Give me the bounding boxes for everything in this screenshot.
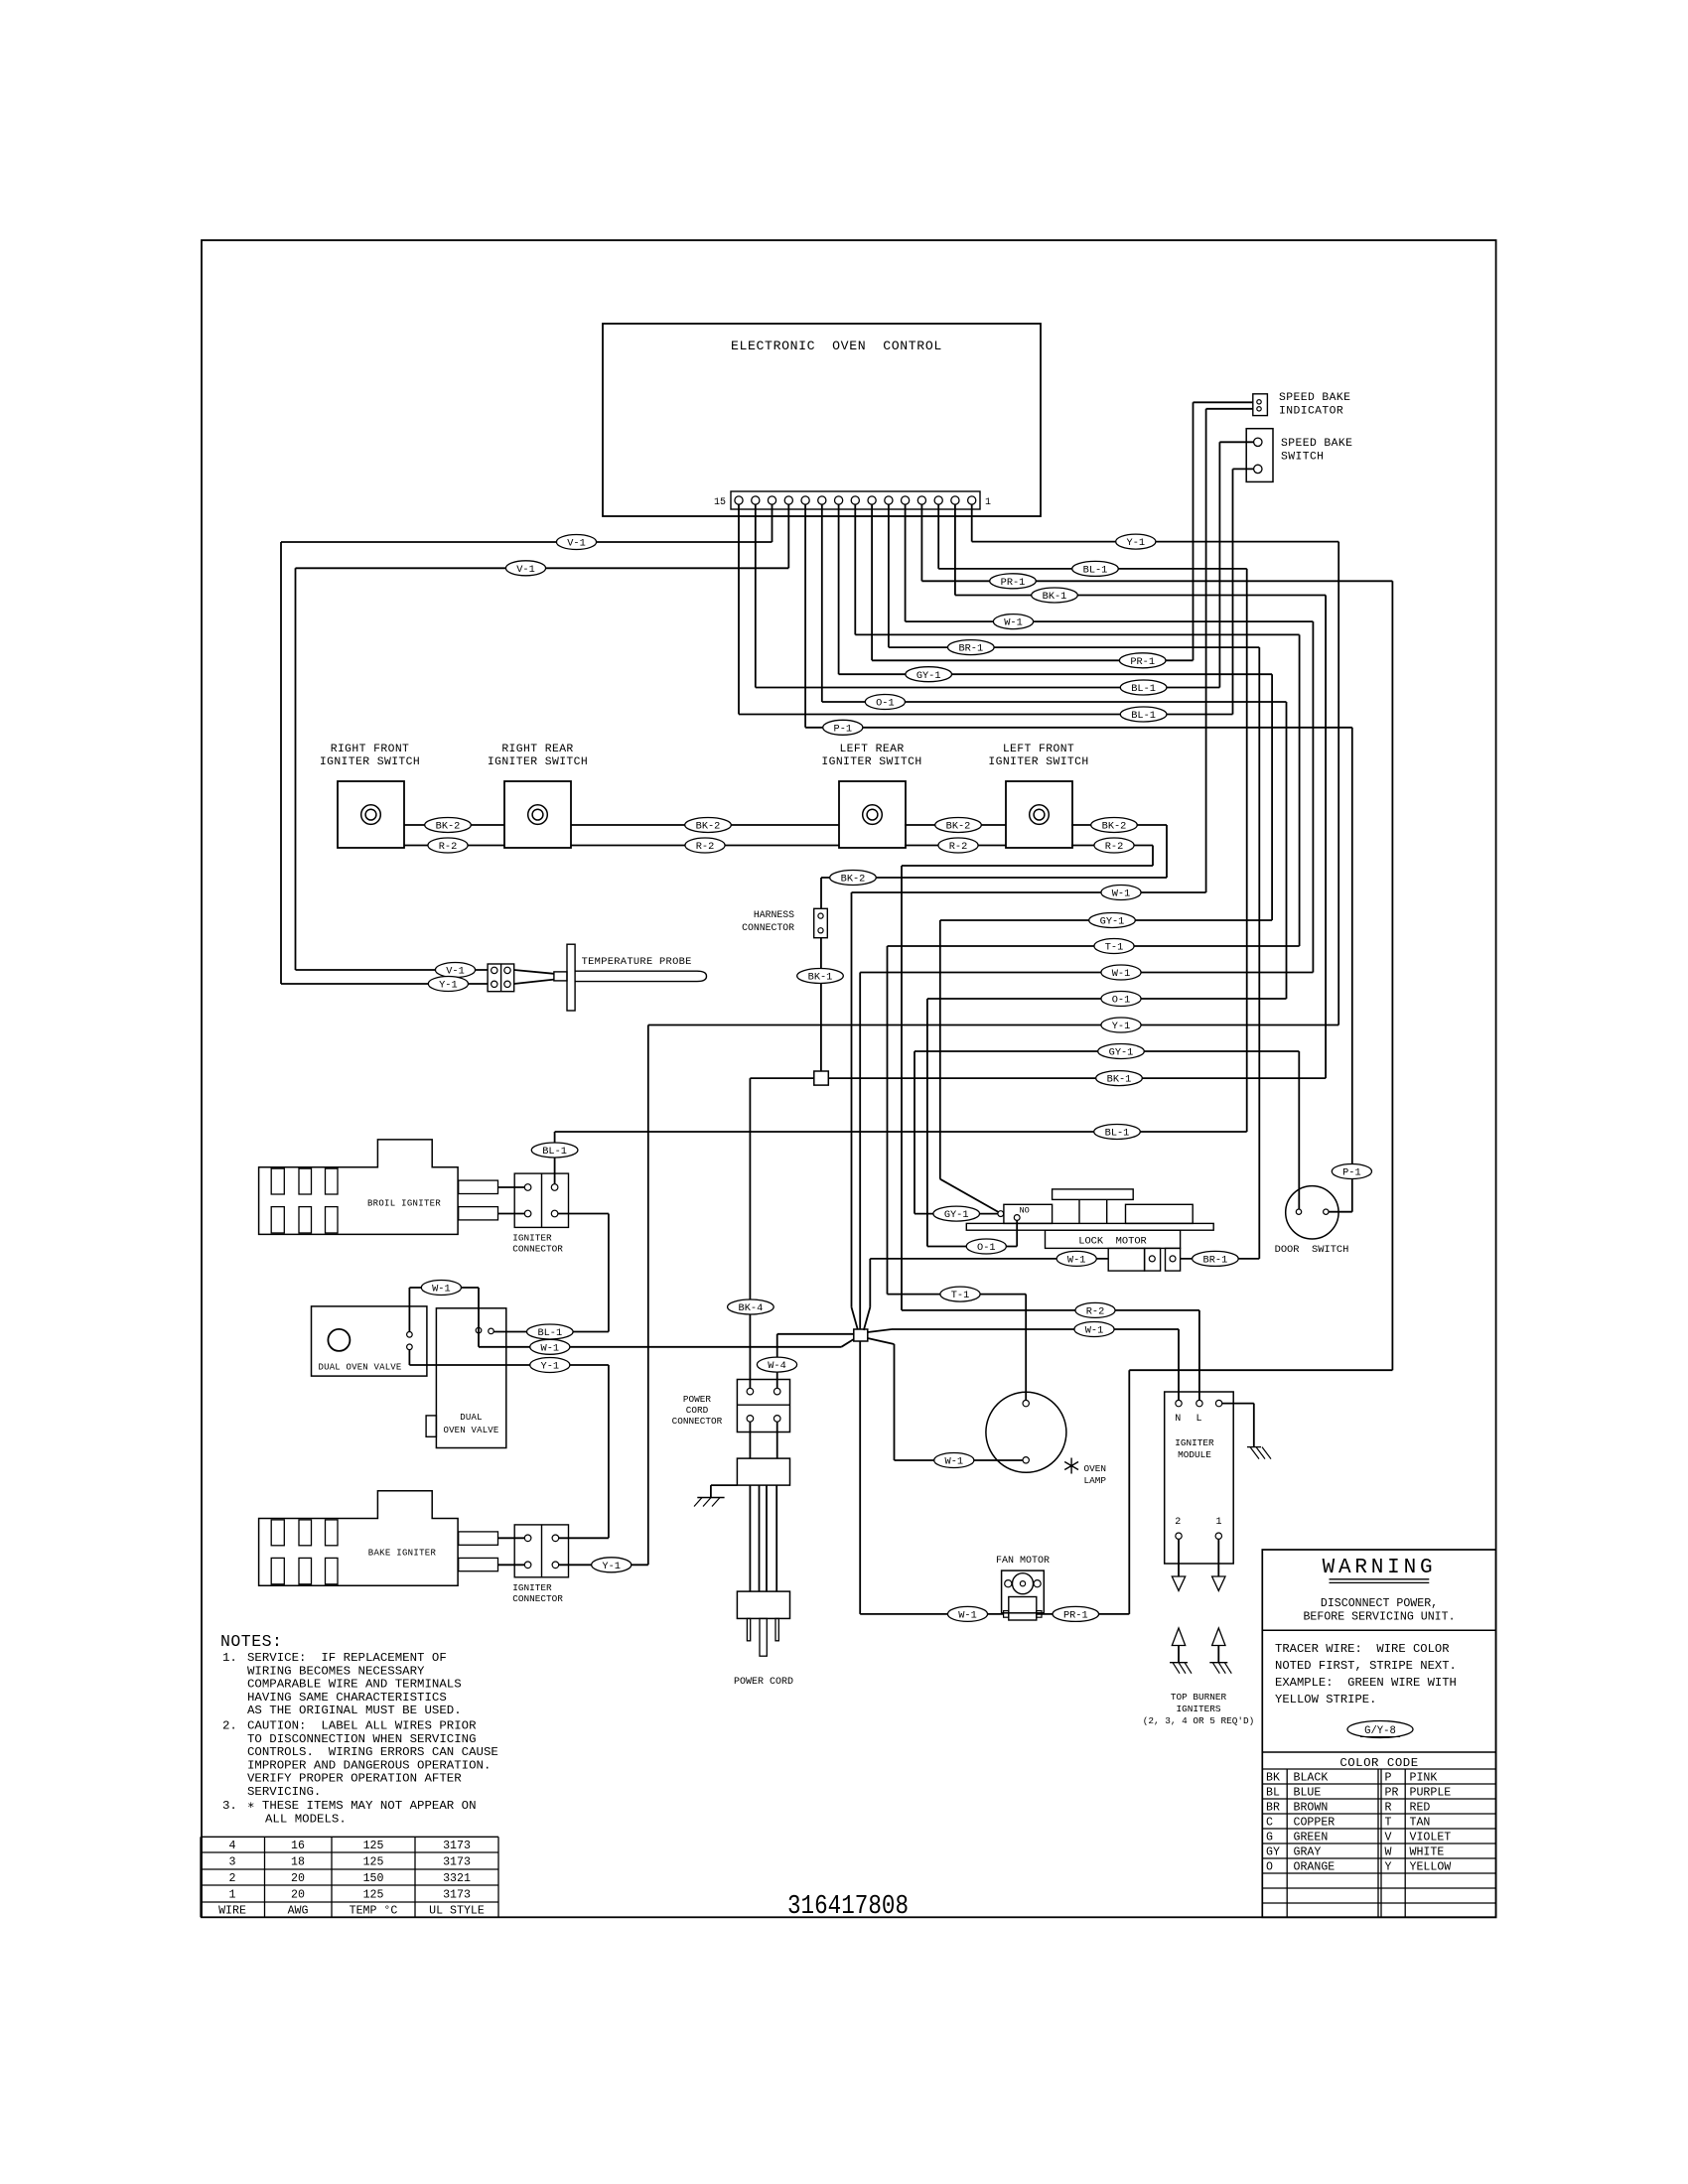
wire BK-4 from node (750, 1077, 813, 1079)
wire vertical GY-1 (1271, 674, 1273, 920)
oval label W-1 mid (1101, 886, 1141, 900)
svg-text:R: R (1385, 1801, 1392, 1814)
wire BL-1 valve row (493, 1331, 609, 1333)
wire vertical Y-1 (1337, 542, 1339, 1025)
svg-text:V-1: V-1 (516, 564, 535, 576)
wire T-1 row upper (855, 633, 1299, 635)
wire indicator pin1 (1194, 401, 1253, 403)
svg-text:Y-1: Y-1 (602, 1561, 621, 1572)
svg-text:IMPROPER AND DANGEROUS OPERATI: IMPROPER AND DANGEROUS OPERATION. (247, 1758, 491, 1772)
oval label BK-2 c (935, 818, 982, 833)
wire W-1 drop to node (851, 892, 853, 1307)
svg-text:BL-1: BL-1 (1131, 710, 1156, 722)
power cord connector label (672, 1394, 723, 1427)
power cord strain relief upper (737, 1458, 789, 1485)
wire T-1 lamp row (888, 1294, 1027, 1296)
wire vertical W-1 (1312, 621, 1314, 972)
door switch S2 body (1286, 1186, 1338, 1239)
ground symbol burner b (1209, 1663, 1231, 1674)
igniter module pin G (1215, 1400, 1221, 1406)
power cord connector divider (737, 1404, 789, 1406)
svg-text:WHITE: WHITE (1410, 1845, 1445, 1858)
svg-text:O-1: O-1 (977, 1242, 996, 1254)
svg-text:HARNESS: HARNESS (754, 909, 794, 920)
fan motor M2 box (1002, 1570, 1045, 1613)
bake igniter connector label (512, 1582, 563, 1604)
wire W-1 drop 2 to node (859, 973, 861, 1614)
speed bake switch pins (1254, 438, 1262, 474)
oval label T-1 mid (1094, 939, 1134, 954)
wire Y-1 long drop (647, 1025, 649, 1566)
wire broil pin1 (498, 1186, 525, 1188)
warning text (1303, 1597, 1455, 1624)
oval label R-2 d (1094, 838, 1134, 853)
connector P1 pins 15..1 (735, 496, 976, 504)
warning title (1323, 1557, 1437, 1579)
igniter module pin labels N L (1175, 1414, 1201, 1425)
svg-text:BLACK: BLACK (1294, 1771, 1329, 1784)
oval label W-1 lamp (934, 1453, 974, 1468)
svg-text:VERIFY PROPER OPERATION AFTER: VERIFY PROPER OPERATION AFTER (247, 1772, 462, 1786)
wire R-2 crossover (902, 865, 1153, 867)
oven lamp pins (1023, 1400, 1029, 1463)
wire pin6 drop BR-1 (888, 504, 890, 647)
svg-text:BK-1: BK-1 (1043, 591, 1067, 603)
oval label BL-1 broil (531, 1143, 578, 1158)
wire table grid (201, 1837, 498, 1917)
svg-text:W-1: W-1 (1004, 617, 1023, 629)
svg-text:O-1: O-1 (876, 698, 895, 710)
note 2 (222, 1719, 498, 1800)
lock motor lower pin b (1149, 1256, 1155, 1262)
harness connector J1 box (814, 908, 828, 937)
fan motor pin tabs (1004, 1611, 1042, 1618)
power cord label (734, 1677, 793, 1688)
bake igniter connector divider (541, 1525, 543, 1577)
wire broil pin2 (498, 1213, 525, 1215)
wire W-1 valve loop top (409, 1287, 479, 1289)
wire W-1 to lock motor (870, 1258, 1108, 1260)
wire T-1 to lamp (1025, 1295, 1027, 1401)
svg-text:IGNITER SWITCH: IGNITER SWITCH (821, 756, 921, 768)
fan motor label (996, 1556, 1050, 1567)
oval label BL-1 (1072, 561, 1119, 576)
temperature probe connector box (488, 964, 514, 992)
svg-text:CONNECTOR: CONNECTOR (512, 1593, 563, 1604)
lock motor lower box b (1145, 1248, 1161, 1271)
Left Front igniter switch box (1006, 781, 1072, 848)
oval label GY-1 (906, 667, 952, 682)
wire BK-2 LR-LF (905, 824, 1006, 826)
wire BR-1 row (889, 646, 1259, 648)
fan motor ears (1005, 1580, 1041, 1587)
svg-text:DISCONNECT POWER,: DISCONNECT POWER, (1321, 1597, 1438, 1610)
svg-text:G: G (1266, 1831, 1273, 1843)
igniter module pin 2 (1176, 1533, 1182, 1539)
svg-text:IGNITER SWITCH: IGNITER SWITCH (488, 756, 588, 768)
oval label BL-1 mid (1094, 1125, 1141, 1140)
Right Rear igniter switch label (488, 744, 588, 768)
svg-text:3173: 3173 (443, 1889, 471, 1902)
wire PR-1 row 2 (872, 659, 1193, 661)
wire pin10 drop O-1 (821, 504, 823, 702)
svg-text:BL-1: BL-1 (537, 1327, 562, 1339)
oval label BK-1 (1032, 588, 1078, 603)
svg-text:PINK: PINK (1410, 1771, 1438, 1784)
oval label O-1 lock (966, 1239, 1006, 1254)
temperature probe connector divider (500, 964, 502, 992)
power cord 4 conductors (750, 1485, 776, 1591)
svg-text:R-2: R-2 (949, 841, 968, 853)
dual oven valve B pins (476, 1327, 493, 1333)
wire BK-2 drop (1166, 825, 1168, 878)
oval label Y-1 valve (530, 1358, 570, 1373)
wire pin1 drop Y-1 (971, 504, 973, 542)
electronic oven control U1 box (603, 324, 1041, 516)
wire pin13 drop V-1 (772, 504, 774, 542)
wire module pin1 down (1217, 1539, 1219, 1576)
svg-text:BL: BL (1266, 1786, 1280, 1799)
wire R-2 to L pin (1198, 1310, 1200, 1401)
svg-text:DOOR SWITCH: DOOR SWITCH (1275, 1244, 1349, 1256)
wire vertical to switch pin1 / BL-1 (1218, 442, 1220, 687)
svg-text:W-1: W-1 (432, 1284, 451, 1296)
wire W node diagonal left (841, 1339, 854, 1347)
temperature probe label (582, 956, 692, 968)
svg-text:R-2: R-2 (1086, 1306, 1105, 1318)
svg-text:BL-1: BL-1 (542, 1146, 567, 1158)
svg-text:GY: GY (1266, 1845, 1280, 1858)
wire GY-1 mid row (940, 919, 1272, 921)
svg-text:TEMP °C: TEMP °C (350, 1905, 398, 1918)
svg-text:∗ THESE ITEMS MAY NOT APPEAR O: ∗ THESE ITEMS MAY NOT APPEAR ON (247, 1799, 477, 1813)
wire PR-1 fan row (1037, 1613, 1130, 1615)
svg-text:IGNITER SWITCH: IGNITER SWITCH (320, 756, 420, 768)
wire GY-1 mid row 2 (914, 1050, 1299, 1052)
power cord prong left (747, 1618, 750, 1640)
wire W-1 module row (892, 1328, 1179, 1330)
wire BL-1 row 2 (756, 687, 1220, 689)
wire GY-1 row (839, 673, 1273, 675)
svg-text:R-2: R-2 (439, 841, 458, 853)
svg-text:2: 2 (229, 1872, 236, 1885)
wire R-2 long drop (901, 866, 903, 1310)
svg-text:150: 150 (363, 1872, 384, 1885)
svg-text:RIGHT FRONT: RIGHT FRONT (331, 744, 410, 755)
svg-text:V: V (1385, 1831, 1392, 1843)
ground symbol igniter module (1247, 1447, 1271, 1459)
oven lamp label (1084, 1463, 1107, 1486)
note 3 (222, 1799, 477, 1826)
oval label BL-1 valve (527, 1324, 574, 1339)
wire Y-1 bake row (559, 1564, 648, 1566)
wire vertical BL-1 (1246, 569, 1248, 1132)
bake igniter connector pins (524, 1535, 558, 1569)
wire W-1 to N pin (1178, 1329, 1180, 1400)
wire BK-2 to harness (821, 877, 1167, 879)
svg-text:GY-1: GY-1 (916, 670, 941, 682)
wire BL-1 valve vertical (608, 1214, 610, 1332)
broil igniter connector J2 box (514, 1173, 568, 1227)
speed bake indicator pins (1257, 400, 1261, 411)
igniter module pin 1 (1215, 1533, 1221, 1539)
wire W-1 lamp vertical (894, 1344, 896, 1460)
dual oven valve A label (319, 1363, 402, 1373)
svg-text:W: W (1385, 1845, 1392, 1858)
svg-text:T-1: T-1 (951, 1290, 970, 1301)
lock motor left box (1004, 1204, 1053, 1223)
wire bake top pin to Y-1 (559, 1537, 609, 1539)
wire GY-1 drop 2 (914, 1051, 915, 1214)
dual oven valve B notch (426, 1416, 436, 1436)
power cord prong middle (760, 1618, 767, 1656)
svg-text:AWG: AWG (288, 1905, 309, 1918)
svg-text:3173: 3173 (443, 1840, 471, 1852)
wire probe row upper V-1 (296, 969, 489, 971)
speed bake switch label (1281, 438, 1352, 464)
wire harness connector feed (820, 878, 822, 908)
svg-text:WARNING: WARNING (1323, 1557, 1437, 1579)
svg-text:BR-1: BR-1 (958, 643, 983, 655)
svg-text:LOCK MOTOR: LOCK MOTOR (1078, 1236, 1147, 1248)
ground symbol power cord (694, 1498, 725, 1507)
svg-text:BK: BK (1266, 1771, 1280, 1784)
oval label W-1 mid 2 (1101, 965, 1141, 980)
oval label W-1 valve (530, 1339, 570, 1354)
harness connector label (742, 909, 794, 933)
svg-text:SPEED BAKE: SPEED BAKE (1281, 438, 1352, 450)
svg-text:ORANGE: ORANGE (1294, 1860, 1336, 1873)
wire W node diagonal lock (864, 1307, 871, 1330)
svg-text:Y-1: Y-1 (1112, 1021, 1131, 1032)
wire BK-1 mid row (828, 1077, 1326, 1079)
svg-text:V-1: V-1 (567, 538, 586, 550)
svg-text:125: 125 (363, 1856, 384, 1869)
oval label BK-2 harness (830, 871, 877, 886)
svg-text:PURPLE: PURPLE (1410, 1786, 1452, 1799)
svg-text:C: C (1266, 1816, 1273, 1829)
svg-text:P-1: P-1 (1342, 1167, 1361, 1179)
wire pin2 drop BK-1 (954, 504, 956, 596)
wire module ground (1222, 1404, 1254, 1447)
igniter module pin labels 2 1 (1175, 1517, 1221, 1528)
temperature probe plate (567, 944, 575, 1011)
svg-text:P: P (1385, 1771, 1392, 1784)
wire BK-2 LF right (1071, 824, 1167, 826)
notes title (220, 1632, 282, 1651)
speed bake indicator DS1 box (1253, 394, 1268, 416)
arrow up burner b (1212, 1628, 1225, 1646)
svg-text:TOP BURNER: TOP BURNER (1171, 1692, 1227, 1703)
wire vertical BK-1 (1325, 596, 1327, 1079)
svg-text:YELLOW STRIPE.: YELLOW STRIPE. (1275, 1693, 1376, 1706)
igniter module label (1175, 1437, 1214, 1460)
color code entries (1266, 1771, 1451, 1873)
svg-text:DUAL OVEN VALVE: DUAL OVEN VALVE (319, 1363, 402, 1373)
svg-text:IGNITER: IGNITER (512, 1582, 552, 1593)
svg-text:4: 4 (229, 1840, 236, 1852)
speed bake indicator label (1279, 392, 1350, 418)
oval label V-1 lower (505, 561, 545, 576)
svg-text:NOTES:: NOTES: (220, 1632, 282, 1651)
svg-text:WIRING BECOMES NECESSARY: WIRING BECOMES NECESSARY (247, 1664, 425, 1678)
wire P-1 to door pin (1329, 1211, 1352, 1213)
wire V-1 row upper (281, 541, 773, 543)
svg-text:W-1: W-1 (1067, 1255, 1086, 1267)
wire BK-4 drop (749, 1078, 751, 1388)
oval label BK-4 (728, 1299, 774, 1314)
wire W-1 mid row 2 (860, 972, 1313, 974)
wire GY-1 to lock (914, 1213, 998, 1215)
svg-text:LAMP: LAMP (1084, 1475, 1107, 1486)
svg-text:20: 20 (291, 1889, 305, 1902)
Right Front igniter switch box (338, 781, 404, 848)
oval label P-1 door (1332, 1164, 1371, 1179)
wire vertical to indicator pin1 (1193, 402, 1195, 660)
power cord connector pins (747, 1388, 780, 1422)
svg-text:ALL MODELS.: ALL MODELS. (265, 1812, 347, 1826)
wire Y-1 to bake connector (608, 1365, 610, 1538)
oval label O-1 (865, 695, 905, 710)
svg-text:T-1: T-1 (1105, 942, 1124, 954)
power cord prong right (775, 1618, 778, 1640)
svg-text:IGNITER: IGNITER (1175, 1437, 1214, 1448)
lock motor lower box c (1166, 1248, 1181, 1271)
Left Rear igniter switch box (839, 781, 906, 848)
svg-text:L: L (1196, 1414, 1202, 1425)
temperature probe taper (514, 970, 554, 984)
broil igniter connector pins (524, 1184, 558, 1217)
lock motor bar (966, 1223, 1213, 1230)
svg-text:TO DISCONNECTION WHEN SERVICIN: TO DISCONNECTION WHEN SERVICING (247, 1732, 477, 1746)
oval label BK-2 b (685, 818, 732, 833)
svg-text:HAVING SAME CHARACTERISTICS: HAVING SAME CHARACTERISTICS (247, 1691, 447, 1705)
wire O-1 up to NO contact (1016, 1220, 1018, 1246)
wire W-1 valve row (479, 1346, 841, 1348)
wire V-1 left drop 2 (295, 568, 297, 970)
svg-text:IGNITER SWITCH: IGNITER SWITCH (988, 756, 1088, 768)
dual oven valve A pins (407, 1332, 413, 1350)
wire P-1 row (805, 727, 1352, 729)
power cord connector J4 box (737, 1380, 789, 1433)
oval label Y-1 (1116, 534, 1156, 549)
wire switch pin2 (1233, 468, 1254, 470)
power cord strain relief lower (737, 1591, 789, 1618)
wire switch pin1 (1219, 441, 1253, 443)
oval label R-2 c (938, 838, 978, 853)
svg-text:3321: 3321 (443, 1872, 471, 1885)
svg-text:316417808: 316417808 (787, 1892, 909, 1922)
oval label Y-1 probe (428, 977, 468, 992)
svg-text:CONTROLS. WIRING ERRORS CAN C: CONTROLS. WIRING ERRORS CAN CAUSE (247, 1745, 498, 1759)
oval label R-2 a (428, 838, 468, 853)
wire W-1 lock vertical (869, 1259, 871, 1307)
svg-text:W-1: W-1 (1112, 888, 1131, 900)
broil igniter label (367, 1199, 441, 1209)
svg-text:Y-1: Y-1 (1127, 537, 1146, 549)
color code table frame (1262, 1751, 1495, 1753)
svg-text:20: 20 (291, 1872, 305, 1885)
wire BL-1 row 3 (739, 714, 1233, 716)
wire BL-1 mid row (555, 1131, 1247, 1133)
svg-text:BL-1: BL-1 (1083, 565, 1108, 577)
igniter module U2 box (1165, 1392, 1234, 1564)
svg-text:Y-1: Y-1 (439, 980, 458, 992)
broil igniter E1 (259, 1140, 498, 1235)
svg-text:AS THE ORIGINAL MUST BE USED.: AS THE ORIGINAL MUST BE USED. (247, 1704, 462, 1717)
warning title underline (1330, 1579, 1430, 1583)
Left Rear igniter switch contact (863, 805, 883, 825)
wire R-2 LF right (1071, 845, 1153, 847)
svg-text:W-1: W-1 (1085, 1325, 1104, 1337)
svg-text:PR-1: PR-1 (1130, 656, 1155, 668)
oval label W-4 (757, 1357, 796, 1372)
svg-text:CORD: CORD (686, 1405, 709, 1416)
svg-text:BK-1: BK-1 (1107, 1074, 1132, 1086)
svg-text:OVEN: OVEN (1084, 1463, 1107, 1474)
svg-text:TAN: TAN (1410, 1816, 1431, 1829)
oval label BK-2 d (1091, 818, 1138, 833)
svg-text:CONNECTOR: CONNECTOR (672, 1416, 723, 1427)
wire bake pin1 (498, 1537, 525, 1539)
color code column lines (1287, 1769, 1405, 1917)
lock motor right box (1126, 1204, 1194, 1223)
arrow down pin1 (1212, 1576, 1225, 1590)
svg-text:BEFORE SERVICING UNIT.: BEFORE SERVICING UNIT. (1303, 1611, 1455, 1624)
top burner igniters label (1143, 1692, 1255, 1726)
svg-text:15: 15 (714, 497, 726, 508)
bake igniter E2 (259, 1491, 498, 1586)
svg-text:BLUE: BLUE (1294, 1786, 1322, 1799)
svg-text:3.: 3. (222, 1799, 237, 1813)
svg-text:BK-2: BK-2 (1102, 821, 1127, 833)
node W junction square (854, 1329, 868, 1341)
svg-text:PR-1: PR-1 (1001, 577, 1026, 589)
Right Rear igniter switch box (504, 781, 571, 848)
svg-text:OVEN VALVE: OVEN VALVE (443, 1426, 498, 1435)
svg-text:V-1: V-1 (446, 966, 465, 978)
svg-text:2: 2 (1175, 1517, 1181, 1528)
harness connector pins (818, 913, 823, 933)
oval label W-1 lock (1056, 1251, 1096, 1266)
svg-text:NOTED FIRST, STRIPE NEXT.: NOTED FIRST, STRIPE NEXT. (1275, 1659, 1457, 1673)
wire pin15 drop (738, 504, 740, 715)
svg-text:UL STYLE: UL STYLE (429, 1905, 485, 1918)
electronic oven control label (731, 339, 942, 353)
wire pin14 drop (755, 504, 757, 688)
wire ground stub (711, 1485, 738, 1497)
warning box (1262, 1550, 1495, 1917)
wire R-2 RR-LR (571, 845, 839, 847)
warning box divider (1262, 1629, 1495, 1631)
wire table entries (218, 1840, 485, 1918)
wire PR-1 row (921, 580, 1392, 582)
oval label GY-1 mid (1089, 913, 1136, 928)
wire W-1 lamp row (895, 1459, 1024, 1461)
oval label W-1 fan (947, 1606, 987, 1621)
door switch pins (1296, 1209, 1329, 1214)
svg-text:P-1: P-1 (834, 723, 853, 735)
wire T-1 mid row (888, 945, 1300, 947)
svg-text:SERVICE: IF REPLACEMENT OF: SERVICE: IF REPLACEMENT OF (247, 1651, 447, 1665)
wire broil to valve BL-1 (558, 1213, 609, 1215)
wire O-1 mid row (927, 998, 1287, 1000)
svg-text:3173: 3173 (443, 1856, 471, 1869)
svg-text:BK-2: BK-2 (841, 874, 866, 886)
wire W node diagonal right (868, 1329, 892, 1332)
svg-text:GY-1: GY-1 (1100, 916, 1125, 928)
svg-text:COLOR CODE: COLOR CODE (1339, 1756, 1418, 1770)
